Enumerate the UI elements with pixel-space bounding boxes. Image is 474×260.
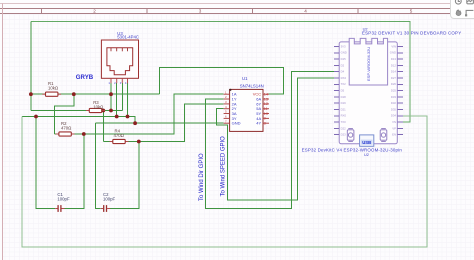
svg-text:RX0: RX0	[341, 114, 347, 118]
wire RJ11 pin 4 drop	[127, 83, 129, 117]
wire GND rail	[22, 117, 135, 124]
svg-text:D15: D15	[341, 57, 347, 61]
svg-text:D35: D35	[391, 107, 397, 111]
svg-text:4Y: 4Y	[256, 121, 261, 126]
wire R3 row	[31, 110, 122, 112]
R3 labels	[93, 100, 104, 109]
svg-text:U2: U2	[364, 152, 369, 157]
svg-text:GND: GND	[232, 121, 241, 126]
wire GND bottom loop	[22, 116, 427, 247]
svg-text:D27: D27	[391, 76, 397, 80]
svg-text:U1: U1	[242, 76, 248, 81]
connector U3 5301-4P4C	[101, 40, 138, 83]
svg-text:D4: D4	[341, 70, 345, 74]
svg-text:ESP32 DevKitC V4 ESP32-WROOM-3: ESP32 DevKitC V4 ESP32-WROOM-32U-30pin	[302, 147, 403, 152]
wire C2 left feed	[95, 123, 100, 208]
U2 button BOOT	[380, 129, 387, 142]
wire RJ11 pin 1 drop	[110, 83, 112, 111]
C2 labels	[103, 192, 116, 201]
resistor R1	[42, 92, 61, 96]
wire R4 row to U1 pin 2A	[103, 104, 223, 142]
U1 left pin labels	[232, 92, 241, 126]
wire R1 row	[31, 93, 160, 95]
svg-text:ESP32 DEVKIT V1 30 PIN DEVBOAR: ESP32 DEVKIT V1 30 PIN DEVBOARD COPY	[362, 30, 461, 35]
wire VCC feeder	[160, 68, 284, 95]
wire C1 left feed	[36, 117, 55, 209]
svg-text:D5: D5	[341, 89, 345, 93]
U1 right pin numbers	[264, 92, 269, 126]
svg-text:VIN: VIN	[391, 44, 396, 48]
svg-text:RX2: RX2	[341, 76, 347, 80]
svg-text:USB: USB	[362, 140, 371, 145]
R2 labels	[61, 121, 72, 130]
wire C2 right to R4	[110, 142, 140, 209]
svg-text:D14: D14	[391, 70, 397, 74]
svg-text:100pF: 100pF	[103, 196, 116, 201]
svg-text:470Ω: 470Ω	[61, 125, 72, 130]
svg-text:D32: D32	[391, 101, 397, 105]
U1 right pin labels	[253, 92, 262, 126]
svg-text:10kΩ: 10kΩ	[48, 86, 59, 91]
U2 button EN	[347, 129, 354, 142]
svg-text:D33: D33	[391, 95, 397, 99]
U3 reference labels	[117, 31, 139, 40]
svg-text:D34: D34	[391, 114, 397, 118]
svg-text:D13: D13	[391, 57, 397, 61]
svg-text:D18: D18	[341, 95, 347, 99]
junction dots	[29, 92, 141, 143]
module U2 ESP32 DevKitC board	[339, 38, 397, 143]
svg-text:10kΩ: 10kΩ	[93, 104, 104, 109]
wire jog R1 to R2	[54, 94, 74, 134]
svg-text:TX2: TX2	[341, 82, 347, 86]
U1 reference labels	[240, 76, 264, 88]
svg-text:D2: D2	[341, 63, 345, 67]
svg-text:2: 2	[93, 9, 96, 14]
svg-text:5: 5	[410, 9, 413, 14]
U2 USB connector	[360, 135, 374, 146]
wire R2 row to U1 pin 1A	[54, 94, 223, 134]
capacitor C1	[55, 205, 64, 212]
U2 right pins	[397, 47, 403, 135]
resistor R4	[110, 139, 129, 143]
R1 labels	[48, 81, 59, 90]
svg-text:To Wind Dir GPIO: To Wind Dir GPIO	[199, 153, 205, 201]
svg-text:4: 4	[304, 9, 307, 14]
svg-text:TX0: TX0	[341, 120, 347, 124]
C1 labels	[57, 192, 70, 201]
svg-text:SN74LS14N: SN74LS14N	[240, 84, 264, 89]
U2 value labels bottom	[302, 147, 403, 157]
svg-text:GND: GND	[390, 51, 396, 55]
wire 3V3 left drop	[30, 22, 32, 111]
resistor R3	[86, 108, 105, 112]
U2 left pins	[334, 47, 339, 135]
wire C1 right to R2	[64, 134, 84, 209]
svg-text:To Wind SPEED GPIO: To Wind SPEED GPIO	[221, 136, 227, 197]
wire 1Y to Wind Dir GPIO	[206, 72, 334, 209]
U2 right pin labels	[390, 44, 397, 136]
wire RJ11 pin 3 drop	[121, 83, 123, 111]
svg-text:D26: D26	[391, 82, 397, 86]
R4 labels	[114, 129, 125, 138]
U2 reference labels top	[362, 26, 461, 35]
U1 left pin numbers	[225, 90, 227, 123]
op-amp U1 SN74LS14N hex inverter	[224, 89, 269, 132]
wire R4 feed	[102, 111, 104, 142]
svg-text:3: 3	[199, 9, 202, 14]
svg-text:470Ω: 470Ω	[114, 133, 125, 138]
svg-text:5301-4P4C: 5301-4P4C	[117, 35, 139, 40]
svg-text:VP: VP	[392, 126, 396, 130]
svg-text:D22: D22	[341, 126, 347, 130]
svg-text:D21: D21	[341, 107, 347, 111]
svg-text:D19: D19	[341, 101, 347, 105]
svg-text:VN: VN	[392, 120, 396, 124]
U3 pin numbers	[108, 81, 127, 85]
wire 2Y to Wind SPEED GPIO	[217, 78, 334, 200]
wire RJ11 pin 2 drop	[116, 83, 118, 117]
wire 3V3 top rail	[31, 22, 410, 123]
svg-text:D12: D12	[391, 63, 397, 67]
svg-text:3V3: 3V3	[341, 44, 346, 48]
svg-text:100pF: 100pF	[57, 197, 70, 202]
wire GND to U1 pin 7	[95, 122, 223, 124]
resistor R2	[56, 132, 75, 136]
svg-text:D23: D23	[341, 133, 347, 137]
svg-text:GND: GND	[341, 51, 347, 55]
svg-text:D25: D25	[391, 89, 397, 93]
U2 left pin labels	[341, 44, 347, 136]
svg-text:GRYB: GRYB	[76, 74, 94, 81]
capacitor C2	[101, 205, 110, 212]
svg-text:EN: EN	[392, 133, 396, 137]
svg-text:ESP-WROOM-32U: ESP-WROOM-32U	[366, 47, 371, 81]
